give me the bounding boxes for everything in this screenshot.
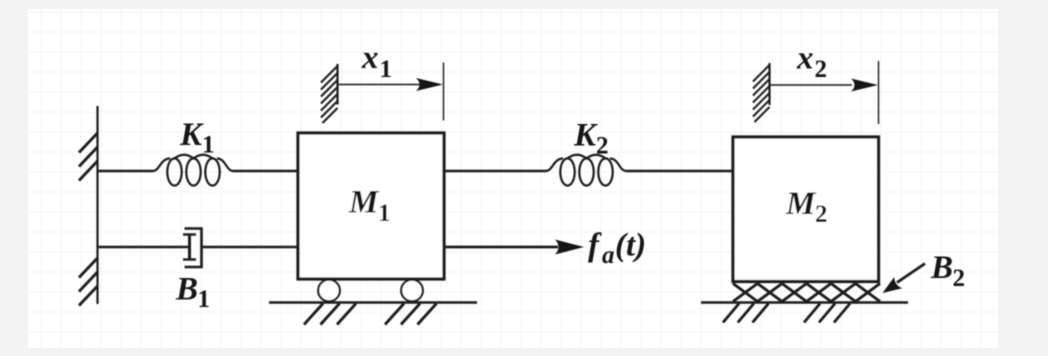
label x2 — [796, 41, 827, 84]
x1 reference line at M1 edge — [443, 63, 445, 121]
svg-text:1: 1 — [378, 200, 391, 227]
ground hatching under M2 group 2 — [804, 304, 850, 323]
x2 arrow line — [770, 84, 853, 86]
roller right under M1 — [401, 280, 423, 302]
svg-text:2: 2 — [953, 265, 966, 292]
x1 wall hatching — [321, 66, 338, 123]
friction B2 X-hatch row under M2 — [733, 284, 880, 302]
wall W1 (left fixed wall) — [96, 106, 98, 304]
svg-text:M: M — [785, 186, 817, 222]
roller left under M1 — [318, 280, 340, 302]
label M2 — [785, 186, 828, 228]
mass M2 box — [733, 137, 879, 282]
svg-text:B: B — [930, 250, 953, 286]
label K2 — [573, 118, 609, 160]
x1 arrowhead — [416, 78, 443, 91]
ground hatching under M2 group 1 — [723, 304, 769, 323]
wire damper B1 to mass M1 — [202, 246, 299, 248]
label B2 — [930, 250, 965, 292]
ground line under M1 — [269, 301, 477, 304]
B2 arrowhead — [883, 277, 903, 293]
spring K1 coil — [153, 155, 233, 186]
mass M1 box — [298, 133, 444, 279]
x2 reference wall — [768, 63, 770, 105]
svg-text:1: 1 — [202, 132, 215, 159]
wall W1 top hatching — [79, 133, 98, 181]
svg-text:1: 1 — [380, 56, 393, 83]
spring K2 coil — [546, 155, 626, 186]
svg-text:x: x — [361, 40, 379, 76]
label f_a(t) — [588, 228, 646, 270]
ground line under M2 — [701, 301, 908, 304]
label K1 — [179, 117, 215, 159]
svg-text:(t): (t) — [615, 228, 646, 264]
wire wall to spring K1 — [98, 170, 154, 172]
svg-text:a: a — [602, 242, 615, 269]
svg-text:K: K — [573, 118, 598, 154]
label M1 — [348, 185, 391, 228]
x2 arrowhead — [851, 79, 878, 92]
svg-text:K: K — [179, 117, 204, 153]
svg-text:2: 2 — [815, 201, 828, 228]
wire spring K1 to mass M1 — [233, 170, 298, 172]
ground hatching under M1 group 2 — [385, 304, 437, 325]
wire spring K2 to mass M2 — [626, 170, 733, 172]
x1 arrow line — [338, 84, 421, 86]
svg-text:1: 1 — [198, 286, 211, 313]
label B1 — [175, 272, 210, 314]
wall W1 bottom hatching — [79, 258, 98, 306]
wire wall to damper B1 — [98, 246, 190, 248]
damper B1 cylinder — [185, 229, 202, 268]
svg-text:M: M — [348, 185, 380, 221]
svg-text:2: 2 — [815, 56, 828, 83]
label x1 — [361, 40, 392, 83]
force line f_a(t) from M1 — [444, 246, 558, 249]
svg-text:2: 2 — [596, 133, 609, 160]
ground hatching under M1 group 1 — [304, 304, 356, 325]
svg-text:x: x — [796, 41, 814, 77]
x1 reference wall — [336, 64, 338, 105]
damper B1 piston — [183, 234, 196, 260]
x2 wall hatching — [753, 65, 770, 122]
x2 reference line at M2 edge — [878, 61, 880, 124]
wire M1 to spring K2 — [444, 170, 546, 172]
f_a(t) arrowhead — [555, 240, 584, 255]
B2 arrow shaft — [897, 264, 925, 283]
svg-text:B: B — [175, 272, 198, 308]
